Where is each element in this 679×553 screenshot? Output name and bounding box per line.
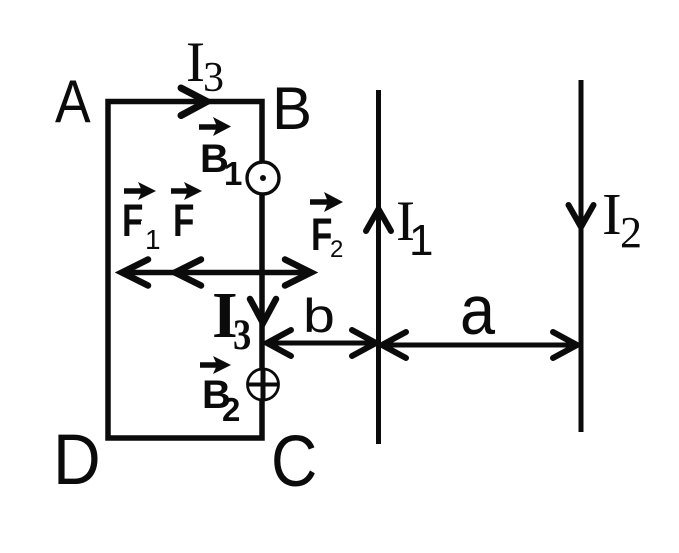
field symbol B2 cross into page xyxy=(248,369,279,400)
wire I2 xyxy=(579,80,584,432)
dimension arrow a xyxy=(381,332,578,358)
svg-text:C: C xyxy=(271,422,317,502)
vector hat over F xyxy=(171,182,202,200)
svg-text:b: b xyxy=(303,291,335,343)
wire I1 xyxy=(376,90,381,444)
current arrow I3 on BC xyxy=(250,299,276,323)
vector hat over F1 xyxy=(124,182,156,200)
current arrow I1 xyxy=(366,209,391,231)
dimension arrow b xyxy=(266,330,377,356)
svg-text:2: 2 xyxy=(330,236,343,263)
svg-text:1: 1 xyxy=(145,224,161,255)
svg-text:F: F xyxy=(122,195,143,246)
svg-text:1: 1 xyxy=(409,216,433,265)
svg-text:3: 3 xyxy=(233,310,251,358)
vector hat over B2 xyxy=(200,356,231,374)
force resultant arrow xyxy=(121,260,312,286)
svg-text:I: I xyxy=(602,181,622,247)
svg-text:1: 1 xyxy=(224,155,242,192)
svg-text:2: 2 xyxy=(620,208,642,257)
wire loop ABCD xyxy=(108,102,262,439)
svg-text:F: F xyxy=(173,195,194,246)
current arrow I3 on AB xyxy=(181,88,207,116)
svg-text:D: D xyxy=(53,420,101,500)
svg-text:2: 2 xyxy=(222,391,240,428)
svg-text:a: a xyxy=(460,272,496,350)
vector hat over F2 xyxy=(310,192,343,212)
field symbol B1 dot out of page xyxy=(247,162,279,194)
svg-text:B: B xyxy=(272,75,312,142)
current arrow I2 xyxy=(569,205,594,227)
svg-text:A: A xyxy=(55,69,91,136)
vector hat over B1 xyxy=(199,117,231,136)
svg-text:3: 3 xyxy=(203,55,224,101)
